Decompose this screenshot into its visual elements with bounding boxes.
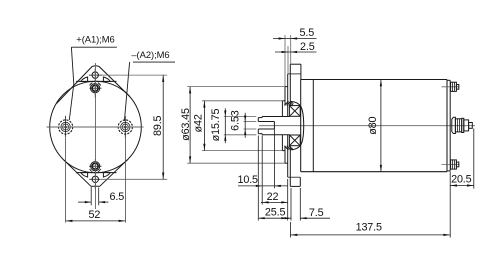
side view: shaft with slot <box>258 117 289 135</box>
dimension 6.53 <box>244 113 257 138</box>
left view: bottom mounting lug (V) <box>64 160 128 186</box>
svg-text:6.53: 6.53 <box>230 110 242 131</box>
side view: bearing boss steps <box>282 87 287 164</box>
dimension 20.5 <box>450 129 474 189</box>
left view: lug base line top <box>76 80 117 82</box>
dimension 2.5 <box>275 46 317 74</box>
svg-text:2.5: 2.5 <box>300 41 315 53</box>
svg-text:22: 22 <box>267 191 279 203</box>
dimension 6.5 <box>78 187 109 205</box>
side view: lower bearing (section box with X) <box>289 135 300 146</box>
side view: flange top tab <box>290 64 301 79</box>
dimension phi63.45 <box>187 87 285 164</box>
svg-text:ø80: ø80 <box>367 116 379 134</box>
side view: top rear stud <box>442 82 460 91</box>
svg-text:5.5: 5.5 <box>300 27 315 39</box>
left view: terminal A2 stud (right) <box>118 120 132 134</box>
dimension 10.5 <box>238 129 288 205</box>
side view: bottom rear stud <box>442 160 460 169</box>
side view: bearing dome outer arc <box>291 101 304 149</box>
label +(A1);M6 with leader <box>69 47 117 120</box>
side view: flange plate <box>288 64 301 186</box>
dimension phi15.75 <box>224 108 256 143</box>
left view: horizontal centerline <box>47 126 144 128</box>
dimension phi80 <box>380 80 382 172</box>
left view: crosshair vertical top holes <box>94 69 96 98</box>
svg-text:ø42: ø42 <box>193 114 205 132</box>
side view: motor body <box>301 80 447 172</box>
left view: hole3 lower boss hole <box>91 162 100 171</box>
svg-text:52: 52 <box>89 209 101 221</box>
left view: web cutout bottom-left <box>81 173 88 178</box>
dimension 137.5 <box>291 172 451 238</box>
svg-text:137.5: 137.5 <box>356 221 382 233</box>
svg-text:7.5: 7.5 <box>309 207 324 219</box>
dimension phi42 <box>202 101 282 151</box>
svg-text:–(A2);M6: –(A2);M6 <box>131 49 169 60</box>
label -(A2);M6 with leader <box>124 62 175 121</box>
left view: web cutout bottom-right <box>103 173 110 178</box>
side view: center rear terminal M6 <box>452 117 473 133</box>
svg-text:20.5: 20.5 <box>451 174 472 186</box>
left view: terminal A1 stud (left) <box>59 120 73 134</box>
side view: flange bottom tab <box>290 177 300 186</box>
left view: hole2 upper boss hole <box>91 84 100 93</box>
dimension 25.5 and 7.5 <box>258 136 330 221</box>
left view: crosshair vertical bottom holes <box>94 159 96 190</box>
side view: upper bearing (section box with X) <box>289 106 300 117</box>
side view: chamfer hatch top <box>284 101 293 105</box>
left view: web cutout top-left <box>81 77 88 82</box>
svg-text:ø63.45: ø63.45 <box>180 108 192 141</box>
left view: hole4 bottom small mounting hole <box>92 176 98 182</box>
svg-text:25.5: 25.5 <box>265 206 286 218</box>
dimension 89.5 <box>101 75 167 179</box>
dimension 52 <box>66 138 126 223</box>
left view: lug base line bottom <box>76 172 117 174</box>
left view: hole1 top small mounting hole <box>92 72 98 78</box>
left view: top mounting lug (peak) <box>57 66 130 104</box>
side view: main axis centerline <box>259 125 475 127</box>
svg-text:10.5: 10.5 <box>238 174 259 186</box>
left view: motor flange outline circle <box>50 81 142 173</box>
svg-text:+(A1);M6: +(A1);M6 <box>76 34 114 45</box>
left view: vertical centerline <box>95 63 97 209</box>
dimension 22 <box>261 179 288 221</box>
side view: rear end cap <box>447 80 450 171</box>
svg-text:89.5: 89.5 <box>152 115 164 136</box>
dimension 5.5 <box>273 35 317 87</box>
side view: chamfer hatch bottom <box>284 146 293 150</box>
side view: body seam line <box>312 80 314 172</box>
left view: web cutout top-right <box>103 77 110 82</box>
svg-text:ø15.75: ø15.75 <box>210 109 222 142</box>
svg-text:6.5: 6.5 <box>110 191 125 203</box>
